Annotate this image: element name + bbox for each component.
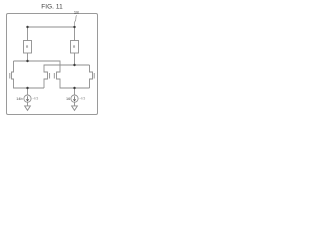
svg-text:~I/3: ~I/3 [79,97,85,101]
svg-text:R: R [73,45,76,49]
svg-text:16: 16 [66,97,70,101]
svg-text:18: 18 [74,10,79,15]
svg-text:R: R [26,45,29,49]
svg-text:14b: 14b [16,97,22,101]
svg-text:FIG. 11: FIG. 11 [41,4,63,11]
svg-text:~I/3: ~I/3 [32,97,38,101]
